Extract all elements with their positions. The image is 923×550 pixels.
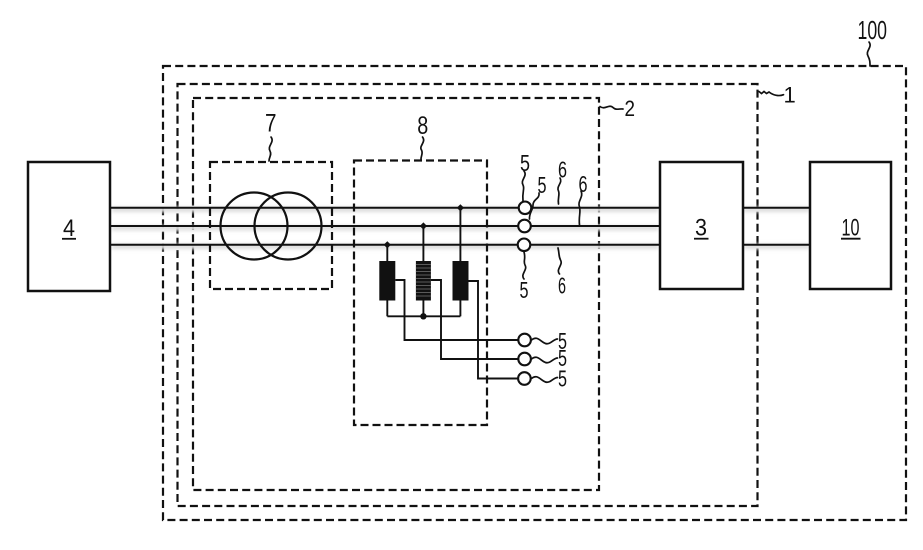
svg-text:10: 10	[842, 215, 860, 242]
svg-text:5: 5	[558, 365, 567, 391]
svg-text:100: 100	[858, 15, 888, 45]
svg-text:2: 2	[625, 96, 636, 121]
svg-text:6: 6	[579, 171, 588, 197]
svg-text:1: 1	[784, 83, 796, 108]
svg-text:6: 6	[558, 157, 567, 183]
svg-text:6: 6	[558, 273, 566, 299]
svg-text:8: 8	[417, 112, 428, 140]
svg-text:7: 7	[265, 110, 277, 138]
svg-text:3: 3	[695, 215, 707, 242]
svg-text:5: 5	[520, 277, 529, 303]
